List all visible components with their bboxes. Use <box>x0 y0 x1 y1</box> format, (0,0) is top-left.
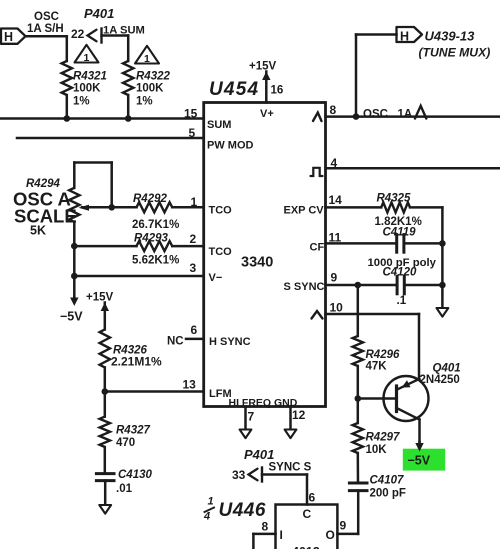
wire R4321 to SUM bus <box>66 95 69 119</box>
label 3340 <box>241 255 273 271</box>
svg-text:26.7K1%: 26.7K1% <box>132 219 179 231</box>
svg-text:200 pF: 200 pF <box>370 488 406 500</box>
U446 pin name C <box>303 507 312 521</box>
svg-text:NC: NC <box>167 336 184 348</box>
svg-text:2: 2 <box>190 232 197 246</box>
pin 5 label <box>189 126 196 140</box>
label Q401 2N4250 <box>420 363 461 387</box>
svg-text:R4293: R4293 <box>134 233 168 245</box>
svg-text:U439-13: U439-13 <box>425 29 476 44</box>
svg-text:.01: .01 <box>116 483 133 495</box>
power -5V (left) <box>60 297 83 324</box>
pin 8 label <box>330 103 337 117</box>
svg-text:22: 22 <box>71 27 85 41</box>
label U454 <box>209 79 259 100</box>
wire H flag to R4321 <box>26 36 67 61</box>
U454 pin name SUM <box>207 119 231 131</box>
svg-text:.1: .1 <box>397 295 407 307</box>
svg-text:HI FREQ GND: HI FREQ GND <box>229 397 298 409</box>
svg-text:R4321: R4321 <box>73 71 107 83</box>
U454 pin name H SYNC <box>209 336 251 348</box>
label OSC 1A S/H <box>27 11 64 35</box>
power +15V (V+ pin 16) <box>249 61 277 103</box>
svg-text:SUM: SUM <box>207 119 231 131</box>
ground (pin 7) <box>240 430 252 439</box>
svg-text:1%: 1% <box>136 96 153 108</box>
label P401 (top) <box>84 6 114 21</box>
svg-text:P401: P401 <box>84 6 114 21</box>
pin 4 label <box>331 156 338 170</box>
resistor R4293 <box>74 233 203 267</box>
U454 pin name TCO (pin 1) <box>209 205 233 217</box>
svg-text:OSC: OSC <box>34 11 59 23</box>
U454 pin name PW MOD <box>207 140 253 152</box>
capacitor C4130 <box>96 469 152 495</box>
U454 triangle symbol (pin 10) <box>312 311 323 319</box>
capacitor C4120 <box>326 267 443 308</box>
wire R4296 to base node <box>357 366 360 399</box>
label 1000 pF poly <box>368 257 437 269</box>
pin 15 label <box>184 107 198 121</box>
wire base node to Q401 <box>358 397 395 400</box>
svg-text:R4297: R4297 <box>366 432 400 444</box>
svg-text:2N4250: 2N4250 <box>420 374 460 386</box>
ground (pin 12) <box>285 430 297 439</box>
label OSC A SCALE 5K <box>13 189 77 238</box>
svg-text:1: 1 <box>191 195 198 209</box>
capacitor C4107 <box>349 475 406 500</box>
pin 11 label <box>329 231 342 245</box>
svg-text:+15V: +15V <box>86 292 114 304</box>
junction rail / C4119 <box>439 240 446 247</box>
transistor Q401 (2N4250 PNP) <box>384 376 429 421</box>
wire R4297 to C4107 <box>357 453 360 483</box>
pin 10 label <box>330 301 344 315</box>
wire pulse out (pin 4) <box>326 167 500 170</box>
svg-text:U454: U454 <box>209 79 259 100</box>
wire triangle out (pin 10) to Q401 emitter <box>326 314 420 379</box>
svg-text:1%: 1% <box>73 96 90 108</box>
svg-text:4013: 4013 <box>292 545 320 549</box>
svg-text:8: 8 <box>262 520 269 534</box>
svg-text:470: 470 <box>116 437 135 449</box>
svg-text:4: 4 <box>203 511 210 523</box>
pin 9 label (U446) <box>340 519 347 533</box>
resistor R4322 <box>123 61 170 108</box>
pin 14 label <box>329 193 343 207</box>
svg-text:33: 33 <box>232 468 246 482</box>
resistor R4296 <box>353 336 400 373</box>
svg-text:C4119: C4119 <box>383 227 417 239</box>
svg-text:R4327: R4327 <box>116 425 150 437</box>
label P401 (bottom) <box>244 447 274 462</box>
ground (right rail) <box>437 308 449 317</box>
svg-text:V−: V− <box>209 272 223 284</box>
svg-text:14: 14 <box>329 193 343 207</box>
U454 pulse symbol (pin 4) <box>311 168 323 176</box>
wire pin 12 to ground <box>289 407 292 430</box>
junction Q401 base node <box>355 395 362 402</box>
U454 pin name S SYNC <box>284 281 325 293</box>
junction SUM bus / R4321 <box>64 115 71 122</box>
sawtooth symbol (bus label) <box>415 106 426 119</box>
wire V- (pin 3) <box>74 275 203 278</box>
svg-text:H SYNC: H SYNC <box>209 336 251 348</box>
label U439-13 (TUNE MUX) <box>419 29 491 60</box>
potentiometer R4294 (OSC A SCALE 5K) <box>26 163 112 222</box>
svg-text:C4107: C4107 <box>370 475 404 487</box>
junction rail / R4293 <box>71 243 78 250</box>
connector flag H (OSC 1A S/H) <box>1 29 26 45</box>
wire SYNC S to U446 clock <box>262 475 307 505</box>
wire PW MOD bus (to pin 5) <box>17 137 204 140</box>
pin 12 label <box>292 408 306 422</box>
junction pot wiper / R4292 <box>108 204 115 211</box>
svg-text:10K: 10K <box>366 444 388 456</box>
svg-text:R4292: R4292 <box>133 193 167 205</box>
pin 9 label <box>331 271 338 285</box>
junction LFM node <box>102 388 109 395</box>
svg-text:6: 6 <box>309 491 316 505</box>
U446 pin name I <box>280 528 283 542</box>
svg-text:1: 1 <box>84 52 90 64</box>
svg-text:1: 1 <box>208 496 214 508</box>
warning triangle 1 (right) <box>135 46 159 65</box>
svg-text:TCO: TCO <box>209 205 233 217</box>
U454 sawtooth symbol (pin 8) <box>313 113 322 122</box>
connector P401 pin 22 (1A SUM) <box>71 25 145 43</box>
U454 pin name TCO (pin 2) <box>209 246 233 258</box>
wire C4130 to ground <box>104 481 107 505</box>
pin 6 label (U446) <box>309 491 316 505</box>
resistor R4292 <box>112 193 204 231</box>
U454 pin name V+ <box>260 108 274 120</box>
svg-text:SYNC S: SYNC S <box>269 462 312 474</box>
wire LFM (pin 13) <box>105 390 204 393</box>
power -5V (Q401 collector, highlighted) <box>403 442 445 471</box>
svg-text:O: O <box>326 528 335 542</box>
svg-text:3: 3 <box>190 261 197 275</box>
svg-text:OSC: OSC <box>363 108 388 120</box>
ground (C4130) <box>99 505 111 514</box>
power +15V (left) <box>86 292 114 330</box>
label NC / wire pin 6 <box>167 336 204 348</box>
svg-text:5K: 5K <box>30 224 46 238</box>
pin 1 label <box>191 195 198 209</box>
svg-text:C: C <box>303 507 312 521</box>
svg-text:−5V: −5V <box>60 310 83 324</box>
svg-text:100K: 100K <box>136 83 164 95</box>
junction rail / V- wire <box>71 273 78 280</box>
wire pin22 to R4322 <box>102 36 129 62</box>
svg-text:H: H <box>400 30 409 44</box>
junction rail / C4120 <box>439 282 446 289</box>
pin 7 label <box>248 410 255 424</box>
svg-text:TCO: TCO <box>209 246 233 258</box>
wire U446 pin 8 <box>253 534 275 549</box>
junction saw bus / U439 stub <box>353 113 360 120</box>
svg-text:8: 8 <box>330 103 337 117</box>
svg-text:R4322: R4322 <box>136 71 170 83</box>
svg-text:3340: 3340 <box>241 255 273 271</box>
svg-text:1: 1 <box>144 53 150 65</box>
svg-text:−5V: −5V <box>408 454 431 468</box>
resistor R4321 <box>62 61 107 108</box>
U454 pin name CF <box>310 242 325 254</box>
connector P401 pin 33 (SYNC S) <box>232 462 312 483</box>
svg-text:PW MOD: PW MOD <box>207 140 253 152</box>
svg-text:S SYNC: S SYNC <box>284 281 325 293</box>
label OSC 1A saw <box>363 108 412 120</box>
svg-text:U446: U446 <box>219 500 266 521</box>
U446 pin name O <box>326 528 335 542</box>
resistor R4297 <box>353 399 400 457</box>
svg-text:13: 13 <box>183 378 197 392</box>
U454 pin name LFM <box>209 388 232 400</box>
U454 pin name HI FREQ GND <box>229 397 298 409</box>
resistor R4327 <box>100 392 151 450</box>
label 1/4 U446 <box>203 496 266 523</box>
wire right rail (R4325/C4119/C4120) <box>441 207 444 308</box>
resistor R4325 <box>326 193 443 229</box>
svg-text:5.62K1%: 5.62K1% <box>132 255 179 267</box>
svg-text:10: 10 <box>330 301 344 315</box>
svg-text:1A: 1A <box>398 108 413 120</box>
pin 3 label <box>190 261 197 275</box>
svg-text:5: 5 <box>189 126 196 140</box>
pin 2 label <box>190 232 197 246</box>
IC U446 (1/4 4013) box <box>276 505 338 549</box>
svg-text:15: 15 <box>184 107 198 121</box>
pin 16 label <box>271 85 284 97</box>
svg-text:R4296: R4296 <box>366 349 400 361</box>
svg-text:2.21M1%: 2.21M1% <box>111 355 162 369</box>
svg-text:+15V: +15V <box>249 61 277 73</box>
svg-text:9: 9 <box>331 271 338 285</box>
wire R4327 to C4130 <box>104 447 107 474</box>
junction SUM bus / R4322 <box>125 115 132 122</box>
svg-text:H: H <box>4 30 13 44</box>
svg-text:Q401: Q401 <box>433 363 461 375</box>
wire R4326 to LFM junction <box>104 367 107 391</box>
svg-text:1A S/H: 1A S/H <box>27 23 64 35</box>
junction S SYNC / R4296 <box>355 282 362 289</box>
svg-text:CF: CF <box>310 242 325 254</box>
svg-text:EXP CV: EXP CV <box>284 205 325 217</box>
svg-text:16: 16 <box>271 85 284 97</box>
pin 6 label <box>191 323 198 337</box>
U454 pin name V- <box>209 272 223 284</box>
resistor R4326 <box>100 329 162 368</box>
wire C4107 to U446 pin 9 <box>337 491 358 534</box>
label 4013 (clipped) <box>292 545 320 549</box>
capacitor C4119 <box>326 227 443 253</box>
pin 8 label (U446) <box>262 520 269 534</box>
svg-text:100K: 100K <box>73 83 101 95</box>
svg-text:6: 6 <box>191 323 198 337</box>
wire pot bottom rail <box>73 222 76 298</box>
svg-text:47K: 47K <box>366 361 388 373</box>
wire R4322 to SUM bus <box>127 95 130 119</box>
wire OSC 1A saw bus (pin 8) <box>326 115 500 118</box>
svg-text:P401: P401 <box>244 447 274 462</box>
svg-text:9: 9 <box>340 519 347 533</box>
svg-text:7: 7 <box>248 410 255 424</box>
svg-text:I: I <box>280 528 283 542</box>
svg-text:C4120: C4120 <box>383 267 417 279</box>
wire SUM bus (to pin 15) <box>0 117 204 120</box>
svg-text:12: 12 <box>292 408 306 422</box>
svg-text:R4325: R4325 <box>377 193 411 205</box>
wire to U439 flag <box>356 35 397 117</box>
svg-text:(TUNE MUX): (TUNE MUX) <box>419 46 491 60</box>
svg-text:C4130: C4130 <box>118 469 152 481</box>
wire Q401 collector down <box>418 420 421 444</box>
IC U454 (CEM3340 VCO) box <box>204 103 326 407</box>
svg-text:V+: V+ <box>260 108 274 120</box>
wire pin 7 to ground <box>244 407 247 430</box>
U454 pin name EXP CV <box>284 205 325 217</box>
wire S SYNC node down <box>357 285 360 336</box>
connector flag H (U439-13) <box>397 27 423 44</box>
pin 13 label <box>183 378 197 392</box>
warning triangle 1 (left) <box>75 45 99 64</box>
